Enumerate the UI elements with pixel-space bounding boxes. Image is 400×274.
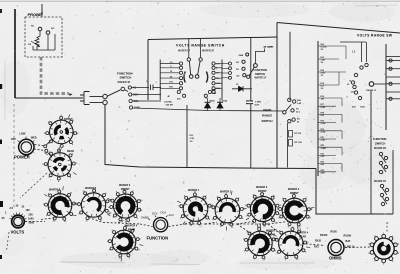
svg-text:AC: AC <box>133 87 137 90</box>
svg-text:FUNCTION: FUNCTION <box>147 236 169 241</box>
svg-text:600V: 600V <box>255 105 260 107</box>
svg-text:21.45: 21.45 <box>321 106 326 109</box>
svg-text:OHMS: OHMS <box>329 256 342 261</box>
svg-text:OHMS: OHMS <box>263 108 272 112</box>
svg-text:214K: 214K <box>321 139 326 142</box>
svg-text:POWER: POWER <box>14 155 30 160</box>
svg-text:RX1K: RX1K <box>331 231 338 234</box>
svg-text:RX1: RX1 <box>314 246 319 249</box>
svg-text:DC: DC <box>236 62 240 64</box>
svg-text:1M: 1M <box>28 44 31 46</box>
svg-text:1%: 1% <box>321 49 324 51</box>
svg-text:.25: .25 <box>1 217 5 220</box>
svg-text:1000: 1000 <box>28 218 34 221</box>
svg-text:4.3K: 4.3K <box>321 155 326 158</box>
svg-text:5000: 5000 <box>29 222 35 225</box>
svg-text:REAR: REAR <box>128 229 135 232</box>
svg-text:VOLTS: VOLTS <box>11 230 25 235</box>
svg-text:WAFER 1B: WAFER 1B <box>374 180 386 183</box>
svg-text:DCA: DCA <box>161 211 167 215</box>
svg-text:RANGE: RANGE <box>262 114 272 118</box>
svg-text:BAT.: BAT. <box>346 240 351 243</box>
svg-text:1.25 MA: 1.25 MA <box>164 101 173 104</box>
svg-text:R5 1.5K: R5 1.5K <box>295 142 303 144</box>
svg-text:1%: 1% <box>321 75 324 77</box>
svg-text:AC: AC <box>237 74 241 77</box>
svg-text:14.2M: 14.2M <box>267 46 273 49</box>
svg-text:2.2M: 2.2M <box>190 138 195 140</box>
svg-text:FRONT: FRONT <box>121 188 130 191</box>
svg-text:1500: 1500 <box>360 107 366 109</box>
svg-text:WAFER 4: WAFER 4 <box>297 232 309 235</box>
svg-text:21.4K: 21.4K <box>321 130 327 133</box>
svg-text:SWITCH: SWITCH <box>255 72 265 76</box>
svg-text:WAFER 3: WAFER 3 <box>119 184 131 187</box>
svg-text:FUNCTION: FUNCTION <box>254 68 268 72</box>
svg-text:WAFER 3: WAFER 3 <box>266 230 278 233</box>
svg-text:1%: 1% <box>321 88 324 90</box>
svg-text:SWITCH: SWITCH <box>375 142 385 146</box>
svg-text:REAR: REAR <box>67 150 74 153</box>
svg-text:2.14K: 2.14K <box>321 122 327 125</box>
svg-text:SWITCH: SWITCH <box>120 76 132 80</box>
svg-text:WAFER 2: WAFER 2 <box>85 187 97 190</box>
svg-text:WAFER 4: WAFER 4 <box>126 225 138 228</box>
svg-text:WAFER 1: WAFER 1 <box>49 189 61 192</box>
svg-text:R3 152: R3 152 <box>295 133 302 135</box>
svg-text:430K: 430K <box>321 171 326 174</box>
svg-text:1%: 1% <box>321 62 324 64</box>
svg-text:REAR: REAR <box>299 236 306 239</box>
svg-text:FUNCTION: FUNCTION <box>373 137 387 141</box>
svg-text:1W: 1W <box>213 93 216 95</box>
svg-text:FRONT: FRONT <box>258 190 267 193</box>
svg-text:RX100: RX100 <box>320 234 328 237</box>
svg-text:OFF: OFF <box>11 138 16 141</box>
svg-text:250: 250 <box>29 214 34 217</box>
svg-text:300 MV: 300 MV <box>166 105 174 107</box>
svg-text:3.4K: 3.4K <box>297 102 302 105</box>
svg-text:WAFER 1F: WAFER 1F <box>255 76 267 79</box>
svg-text:RX10K: RX10K <box>344 235 352 238</box>
svg-text:WAFER 4B: WAFER 4B <box>374 147 386 150</box>
svg-text:NO: NO <box>51 28 55 30</box>
svg-text:1N34A: 1N34A <box>209 100 215 103</box>
svg-text:RX10: RX10 <box>315 240 322 243</box>
svg-text:5MA: 5MA <box>239 54 244 57</box>
svg-text:DCA: DCA <box>134 100 139 103</box>
svg-text:1W: 1W <box>190 141 193 143</box>
svg-text:MED.: MED. <box>31 137 38 140</box>
svg-text:DCV: DCV <box>152 212 158 216</box>
svg-text:VOLTS RANGE SW: VOLTS RANGE SW <box>357 34 393 38</box>
svg-text:.283: .283 <box>321 99 325 101</box>
svg-text:.1 MFD: .1 MFD <box>255 102 262 104</box>
svg-text:DC: DC <box>236 69 240 71</box>
svg-text:LOW: LOW <box>20 133 26 136</box>
svg-text:SWITCH: SWITCH <box>262 119 273 123</box>
svg-text:WAFER 1: WAFER 1 <box>188 189 200 192</box>
svg-text:WAFER 2: WAFER 2 <box>220 191 232 194</box>
svg-text:2.5: 2.5 <box>10 207 14 210</box>
svg-text:DCV: DCV <box>133 94 138 97</box>
svg-text:FRONT: FRONT <box>64 118 73 121</box>
svg-text:WAFER 4: WAFER 4 <box>288 188 300 191</box>
svg-text:OHMS: OHMS <box>141 216 149 220</box>
svg-text:2.2M: 2.2M <box>211 90 216 92</box>
svg-text:WAFER 2F: WAFER 2F <box>202 50 215 53</box>
svg-text:NC: NC <box>31 26 35 28</box>
svg-text:1N34A: 1N34A <box>222 100 228 103</box>
svg-text:WAFER 4F: WAFER 4F <box>118 81 131 84</box>
svg-text:FRONT: FRONT <box>290 192 299 195</box>
svg-text:PROBE: PROBE <box>28 12 43 17</box>
svg-text:D1: D1 <box>236 84 238 86</box>
svg-text:ACV: ACV <box>169 213 175 217</box>
svg-text:WAFER 3: WAFER 3 <box>256 186 268 189</box>
svg-text:100: 100 <box>26 209 31 212</box>
